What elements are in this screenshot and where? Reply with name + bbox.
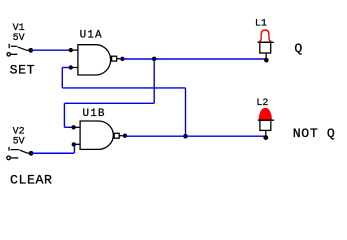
junction dot U1A input 2: [69, 65, 73, 69]
junction dot U1B input 2: [72, 142, 76, 146]
svg-text:U1A: U1A: [80, 29, 103, 41]
lamp L2 dome (on, lit red): [259, 108, 271, 119]
junction dot U1B input 1: [71, 125, 75, 129]
wire NOTQ feedback down: [61, 68, 63, 88]
svg-text:CLEAR: CLEAR: [10, 173, 53, 188]
svg-text:5V: 5V: [13, 136, 25, 147]
wire Q feedback into U1B input 1: [64, 126, 73, 128]
junction dot V2 output: [29, 151, 34, 156]
svg-text:5V: 5V: [13, 33, 25, 44]
wire V2 to riser: [31, 152, 74, 154]
svg-text:L2: L2: [256, 98, 268, 109]
wire Q feedback down to U1B input: [63, 103, 65, 127]
switch V1: [7, 44, 31, 56]
svg-text:SET: SET: [10, 62, 36, 77]
lamp L1 dome (off): [259, 30, 272, 41]
wire Q feedback horizontal: [64, 102, 154, 104]
wire Q feedback vertical: [153, 59, 155, 103]
junction dot U1B output: [123, 134, 127, 138]
lamp L2 lead: [265, 130, 267, 136]
wire NOTQ feedback down to U1B output rail: [185, 88, 187, 136]
junction node NOT Q feedback: [183, 134, 188, 139]
junction dot V1 output: [28, 48, 33, 53]
lamp L2 collar: [258, 119, 274, 121]
lamp L1 body box: [260, 42, 271, 53]
lamp L1 collar: [258, 41, 274, 43]
lamp L2 body box: [260, 120, 271, 130]
svg-text:L1: L1: [255, 18, 267, 29]
wire U1A output to L1 (Q rail): [122, 58, 266, 60]
junction dot L1 / Q node: [264, 58, 269, 63]
junction dot U1A input 1: [69, 48, 73, 52]
svg-text:NOT Q: NOT Q: [293, 126, 336, 141]
nand gate U1A: [73, 45, 120, 75]
junction node Q feedback: [152, 57, 157, 62]
wire NOTQ feedback horizontal: [62, 87, 185, 89]
junction dot L2 / NOT Q node: [263, 135, 268, 140]
nand gate U1B: [74, 121, 123, 149]
wire U1A input 2 stub left: [62, 67, 71, 69]
svg-text:U1B: U1B: [83, 108, 106, 120]
svg-text:Q: Q: [294, 41, 303, 56]
wire U1B output to L2 (NOT Q rail): [125, 135, 266, 137]
lamp L1 lead: [265, 53, 267, 59]
junction dot U1A output: [120, 57, 124, 61]
wire riser to U1B input 2: [73, 145, 75, 154]
switch V2: [7, 147, 31, 160]
wire V1 to U1A input 1: [31, 49, 71, 51]
